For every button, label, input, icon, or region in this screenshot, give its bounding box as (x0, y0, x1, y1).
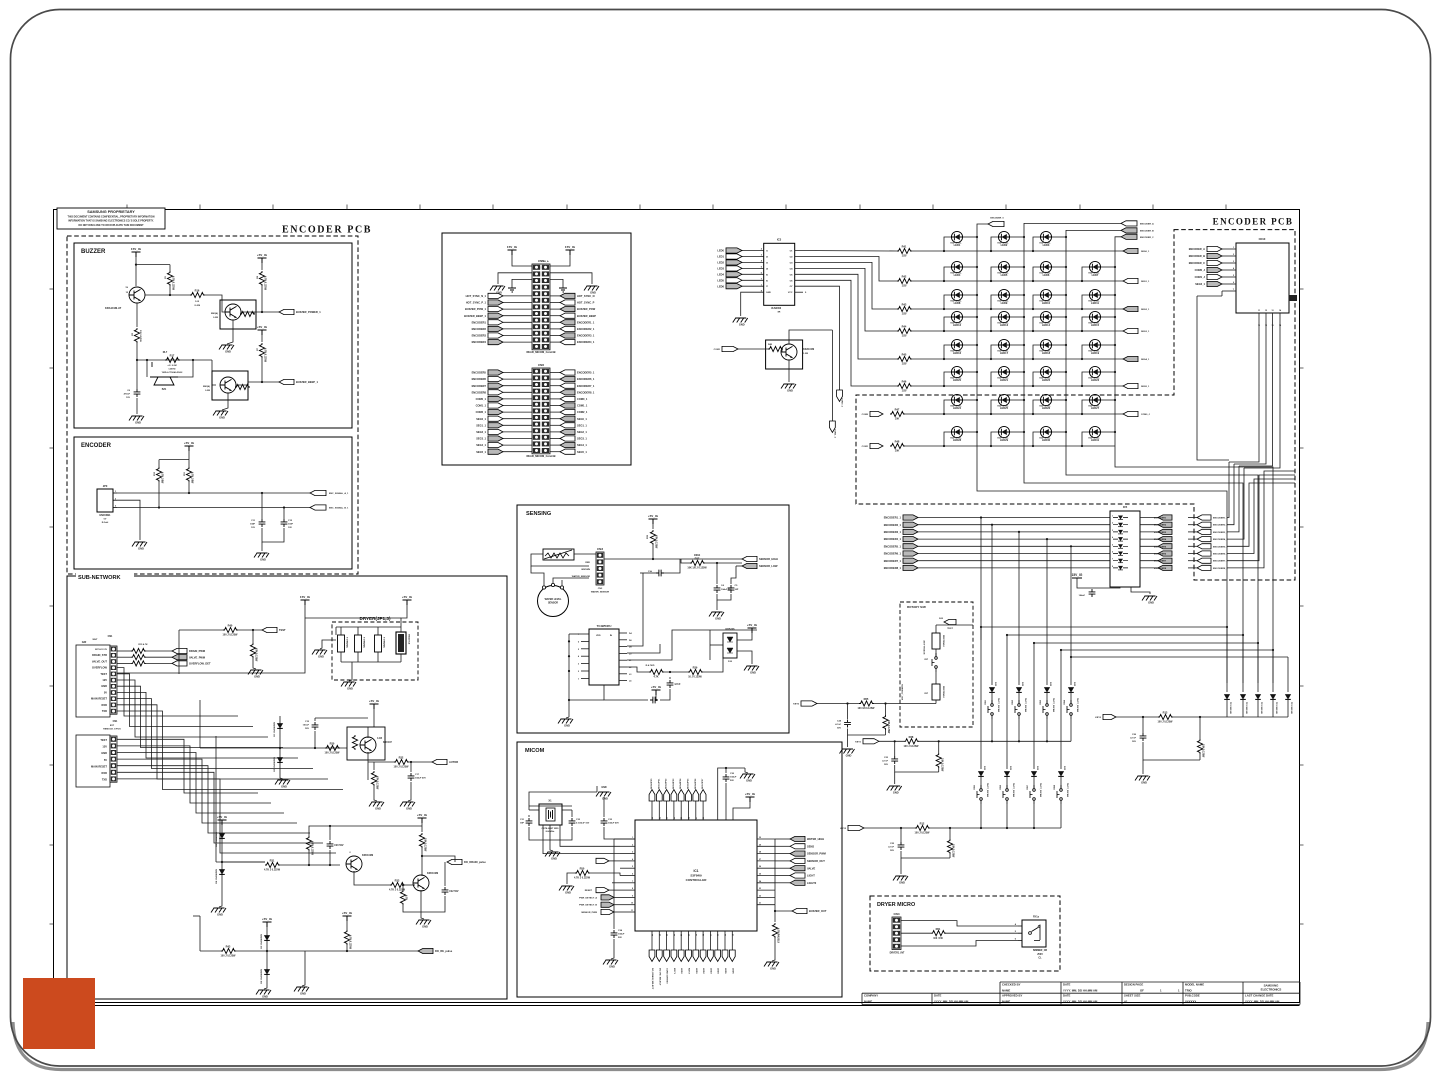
svg-text:GND: GND (101, 751, 107, 755)
svg-text:VALVE_OUT: VALVE_OUT (92, 659, 108, 663)
svg-text:GND: GND (225, 350, 231, 354)
block MICOM box (517, 742, 842, 997)
wire Q1 emitter (136, 303, 138, 327)
net flag PWR_DETECT_B (601, 902, 614, 907)
pin label SEG0/P30 (651, 778, 653, 789)
wire (340, 652, 342, 662)
wire (991, 693, 993, 703)
wire key col low 3 (1033, 643, 1035, 769)
svg-text:19: 19 (696, 934, 698, 936)
junction (1018, 740, 1020, 742)
resistor R12 (915, 822, 931, 835)
resistor R28 (649, 669, 664, 678)
LED LED1 (951, 231, 963, 247)
svg-text:100 J 0.125W: 100 J 0.125W (904, 745, 920, 748)
svg-text:COM0_1: COM0_1 (577, 397, 588, 401)
wire CN6 left pin (503, 418, 532, 420)
wire key row 3 (918, 531, 1110, 533)
wire (614, 838, 620, 840)
wire CN5 left pin (503, 302, 532, 304)
junction (976, 316, 978, 318)
wire (663, 671, 688, 673)
wire (627, 644, 660, 653)
svg-text:COM1_1: COM1_1 (476, 404, 487, 408)
wire (261, 493, 263, 519)
svg-text:SEG3/P33: SEG3/P33 (673, 778, 675, 789)
resonator X1 body (539, 799, 562, 834)
net flag VALVE (790, 866, 816, 871)
wire Q4 emitter (367, 752, 369, 780)
svg-text:SENSING: SENSING (526, 511, 551, 517)
junction (976, 266, 978, 268)
ground (248, 670, 263, 679)
svg-text:KAP-5CEL: KAP-5CEL (1040, 350, 1052, 353)
net flag DO_DRAIN_SELECT (649, 950, 655, 962)
wire CN6 right pin (550, 398, 560, 400)
wire IC5 out 8 (1140, 567, 1158, 569)
wire (550, 840, 553, 851)
wire (222, 861, 265, 863)
wire IC3 out 3 to LED row 3 (795, 262, 897, 309)
svg-text:KAP-5CEL: KAP-5CEL (1089, 322, 1101, 325)
pin label DRAIN_STR (92, 653, 107, 657)
junction (976, 236, 978, 238)
wire stage B input (216, 861, 265, 863)
thermistor TH1 (543, 549, 574, 560)
wire CN6 right pin (550, 391, 560, 393)
wire CN5 left pin (503, 295, 532, 297)
svg-text:ROTARY S/W: ROTARY S/W (907, 605, 926, 609)
net flag HOT_SYNC_P (560, 300, 595, 305)
svg-text:ENCODER_B: ENCODER_B (1140, 230, 1154, 232)
junction (725, 767, 727, 769)
resistor RSW1 body (932, 633, 945, 649)
wire (736, 565, 742, 567)
wire (349, 662, 352, 681)
pin label LED0 (680, 968, 682, 974)
svg-text:KAP-5CEL: KAP-5CEL (998, 437, 1010, 440)
wire (627, 667, 649, 672)
wire CN1 pin 3 fan (117, 668, 238, 716)
connector CN10 right pin (1289, 295, 1297, 301)
net flag PWR_DETECT_A (601, 895, 614, 900)
wire CN6 left pin (503, 438, 532, 440)
svg-text:BZ1: BZ1 (162, 388, 167, 391)
svg-text:16: 16 (718, 934, 720, 936)
svg-text:TLV-WM 4D: TLV-WM 4D (1245, 702, 1248, 714)
svg-text:HOT_SYNC_P: HOT_SYNC_P (577, 301, 595, 305)
ground (254, 553, 269, 562)
block ROTARY S/W dashed box (900, 602, 973, 727)
svg-text:R15 4.7K: R15 4.7K (138, 643, 148, 646)
svg-text:KRC102M: KRC102M (362, 854, 373, 857)
wire LED7 cathode (1101, 266, 1115, 268)
net flag SENSOR_LOW (742, 563, 778, 568)
resistor R10 (156, 467, 163, 484)
wire LED10 cathode (1052, 294, 1066, 296)
wire (566, 717, 569, 718)
svg-text:TACT_SW AB: TACT_SW AB (1076, 698, 1079, 713)
LED LED4 (951, 261, 963, 277)
junction (1114, 294, 1116, 296)
wire IC3 out 1 to LED row 1 (795, 250, 897, 253)
svg-text:YYYY. MM. DD HH:MM AM: YYYY. MM. DD HH:MM AM (1063, 989, 1098, 993)
wire key column 1 drop (980, 518, 982, 641)
right section dashed outline (856, 230, 1295, 580)
svg-text:10: 10 (631, 903, 633, 905)
net flag HOT_SYNC_N_1 (466, 293, 503, 298)
pin label LED2 (702, 968, 704, 974)
LED LED25 (998, 394, 1010, 410)
svg-text:15V_IG: 15V_IG (507, 245, 518, 249)
wire LED23 cathode (1101, 371, 1115, 373)
wire 5V to micom (733, 802, 750, 820)
net flag SEG4_1 (476, 443, 503, 448)
wire (1143, 742, 1200, 760)
wire (237, 629, 262, 631)
capacitor C3 (656, 570, 664, 577)
wire (745, 768, 748, 773)
wire (640, 572, 656, 574)
wire (151, 362, 153, 367)
svg-text:TEST: TEST (279, 628, 286, 632)
wire CN2 pin 4 fan (117, 759, 297, 823)
svg-text:S3F84I9: S3F84I9 (690, 874, 702, 878)
svg-text:SCROLL-ENC: SCROLL-ENC (924, 640, 926, 655)
svg-text:10K 0.125W: 10K 0.125W (424, 838, 427, 852)
svg-text:ENCODER6_J: ENCODER6_J (1213, 554, 1228, 556)
wire (569, 699, 604, 701)
svg-text:R50: R50 (580, 867, 585, 871)
svg-text:COM2_1: COM2_1 (476, 410, 487, 414)
net flag SENSOR_OUT (790, 858, 825, 863)
svg-text:4.7K J 0.125W: 4.7K J 0.125W (574, 877, 591, 880)
diode D31 (1004, 771, 1010, 776)
wire (817, 703, 859, 705)
wire IC5 out 7 (1140, 560, 1158, 562)
wire (1070, 719, 1072, 741)
connector CN3 (596, 547, 604, 585)
ground (781, 384, 796, 393)
LED LED14 (1040, 311, 1052, 327)
svg-text:50V: 50V (730, 780, 734, 782)
power +5V_IG (402, 595, 413, 605)
wire micom right pin 1 (757, 845, 775, 847)
net flag SEG5_1 (476, 449, 503, 454)
junction (568, 640, 570, 642)
wire key col 4 (1070, 640, 1072, 685)
wire CN5 right pin (550, 341, 560, 343)
net flag (944, 619, 956, 624)
wire LED12 anode (944, 317, 951, 331)
wire LED9 cathode (1010, 294, 1024, 296)
wire (900, 828, 902, 842)
power +5V_IG (262, 917, 273, 927)
wire (1188, 524, 1197, 526)
svg-text:SEG0_1: SEG0_1 (476, 417, 486, 421)
svg-text:ELECTRONICS: ELECTRONICS (1261, 988, 1282, 992)
wire LED15 cathode (1101, 316, 1115, 318)
wire (314, 731, 316, 748)
resistor R34 (419, 833, 426, 852)
svg-text:5: 5 (1233, 275, 1234, 277)
resistor R47 (890, 408, 905, 421)
wire (188, 460, 190, 467)
net flag COM0_DRIVE0 (664, 950, 670, 962)
resistor R50 (574, 867, 591, 880)
resistor R61 (931, 927, 946, 940)
svg-text:SW3: SW3 (1040, 699, 1042, 705)
net flag SEG3_1 (476, 436, 503, 441)
svg-text:OVERFLOW_DET: OVERFLOW_DET (189, 662, 211, 666)
junction (1032, 445, 1034, 447)
wire (935, 649, 937, 656)
wire CN6 left pin (503, 391, 532, 393)
resistor R45 (897, 353, 912, 366)
wire micom right pin 8 (757, 896, 775, 898)
svg-text:IC1: IC1 (694, 869, 699, 873)
diode D20 (989, 687, 995, 692)
svg-text:100 0.125W: 100 0.125W (139, 330, 141, 343)
ground (893, 876, 908, 885)
junction (1023, 371, 1025, 373)
svg-text:PWR_DETECT_A: PWR_DETECT_A (579, 896, 597, 899)
ground (211, 908, 226, 917)
wire (614, 904, 620, 906)
wire LED1 cathode (963, 236, 977, 238)
svg-text:15V_IG: 15V_IG (300, 595, 311, 599)
svg-text:REST0N4.6: REST0N4.6 (942, 686, 945, 698)
junction (1033, 642, 1035, 644)
svg-text:GND: GND (217, 913, 223, 917)
junction (1032, 413, 1034, 415)
svg-text:LED4: LED4 (717, 272, 724, 276)
wire IC3 out 2 to LED row 2 (795, 257, 897, 282)
wire (938, 741, 940, 753)
net flag ENCODER2_1 (560, 326, 595, 331)
wire (221, 825, 223, 900)
junction (1023, 294, 1025, 296)
LED LED9 (998, 289, 1010, 305)
net flag DRAIN_PWM (172, 648, 205, 653)
wire (980, 777, 982, 788)
svg-text:SEG2_1: SEG2_1 (1141, 309, 1150, 311)
junction (990, 413, 992, 415)
svg-text:ENCODER1: ENCODER1 (1154, 518, 1167, 520)
svg-text:KAP-5CEL: KAP-5CEL (998, 272, 1010, 275)
wire LED5 cathode (1010, 266, 1024, 268)
wire R11 to A (188, 481, 190, 493)
svg-text:D4 1N4148WS: D4 1N4148WS (215, 868, 218, 883)
wire LED5 anode (991, 267, 998, 281)
net flag SEG5_1 (1123, 383, 1138, 388)
svg-text:0.2M: 0.2M (205, 390, 210, 392)
power +5V_IG (369, 699, 380, 709)
svg-text:ENCODER2_1: ENCODER2_1 (884, 523, 902, 527)
wire key row 5 (918, 545, 1110, 547)
svg-text:10V: 10V (126, 397, 130, 399)
net flag SEG5_1 (560, 449, 587, 454)
svg-text:10 J 0.125W: 10 J 0.125W (688, 676, 702, 679)
svg-text:21: 21 (681, 934, 683, 936)
svg-text:YMD-LCT6040-55G2: YMD-LCT6040-55G2 (162, 371, 184, 374)
svg-text:KAP-5CEL: KAP-5CEL (951, 322, 963, 325)
wire IC pin right (619, 639, 627, 641)
svg-text:SENSOR_HIGH: SENSOR_HIGH (759, 557, 778, 561)
wire micom top pin 5 (688, 801, 690, 820)
wire CN1 pin 10 fan (117, 711, 343, 790)
junction (283, 506, 285, 508)
net flag LED2 (700, 950, 706, 962)
connector CN2 pins (110, 736, 117, 782)
IC1 micom body (635, 820, 757, 931)
svg-text:GND: GND (135, 421, 141, 425)
wire (266, 927, 268, 985)
wire (731, 566, 736, 584)
junction (1032, 250, 1034, 252)
wire micom left pin 0 (620, 838, 635, 840)
wire (612, 882, 620, 884)
junction (980, 516, 982, 518)
junction (652, 558, 654, 560)
net flag (1158, 529, 1172, 534)
orange corner square (23, 978, 95, 1049)
wire (169, 285, 171, 295)
wire CN6 right pin (550, 451, 560, 453)
wire (253, 312, 255, 314)
wire micom bottom pin 8 (709, 931, 711, 950)
wire col1 top (977, 224, 988, 237)
net flag LED3 (717, 266, 742, 271)
junction (990, 358, 992, 360)
transistor stage box Q2 (220, 300, 256, 329)
wire LED16 anode (944, 345, 951, 359)
svg-text:GND: GND (893, 791, 899, 795)
wire (589, 873, 620, 876)
svg-text:GND: GND (262, 995, 268, 999)
svg-text:GND: GND (1141, 781, 1147, 785)
resistor R43 (897, 303, 912, 316)
svg-text:DESIGN PAGE: DESIGN PAGE (1124, 983, 1143, 987)
svg-text:ENCODER_C: ENCODER_C (1189, 261, 1205, 265)
net flag COM1_1in (870, 443, 883, 448)
wire dryer 3 (901, 941, 1018, 947)
pin label KEY2 (688, 968, 690, 974)
power +5V_IG (745, 792, 756, 802)
wire 15V right (550, 255, 570, 266)
svg-text:GND: GND (300, 992, 306, 996)
net flag LED5 (722, 950, 728, 962)
wire (199, 916, 201, 951)
wire IC pin right (619, 652, 627, 654)
svg-text:KAP-5CEL: KAP-5CEL (951, 272, 963, 275)
wire 15V rail (117, 605, 305, 673)
svg-text:23: 23 (667, 934, 669, 936)
resistor R43 (221, 945, 237, 958)
svg-text:KAP-5CEL: KAP-5CEL (951, 377, 963, 380)
wire (314, 718, 316, 721)
svg-text:104uF: 104uF (618, 933, 625, 936)
svg-text:CN3: CN3 (598, 588, 603, 590)
svg-text:ENCODER2_J: ENCODER2_J (1213, 525, 1228, 527)
wire (1197, 295, 1222, 297)
wire micom left pin 4 (620, 867, 635, 869)
wire micom bottom pin 10 (724, 931, 726, 950)
wire (603, 797, 605, 817)
svg-text:COM0: COM0 (862, 414, 869, 416)
wire key row 4 (918, 538, 1110, 540)
wire (775, 875, 790, 877)
net flag LIGHT (790, 873, 815, 878)
wire CN6 left pin (503, 378, 532, 380)
wire (1199, 717, 1201, 739)
net flag SEG2_1 (476, 429, 503, 434)
resistor R7 (259, 343, 266, 363)
wire (1018, 693, 1020, 703)
svg-text:10P: 10P (735, 589, 739, 591)
svg-text:10K 1/8 J 0.125W: 10K 1/8 J 0.125W (687, 567, 707, 570)
svg-text:WATER_SENSOR: WATER_SENSOR (591, 590, 610, 593)
net flag ENCODER_A (1189, 246, 1222, 251)
wire (374, 785, 377, 801)
capacitor C6 (134, 389, 141, 397)
wire (199, 700, 201, 748)
svg-text:KAP-5CEL: KAP-5CEL (1089, 272, 1101, 275)
svg-text:HOT_SYNC_P_1: HOT_SYNC_P_1 (466, 301, 487, 305)
wire CN6 right pin (550, 438, 560, 440)
power +5V_IG (651, 685, 662, 695)
svg-text:KAP-5CEL: KAP-5CEL (1040, 242, 1052, 245)
resistor R40 (223, 624, 239, 637)
svg-text:1/20: 1/20 (902, 255, 907, 258)
pin label KEY2 (1154, 525, 1167, 527)
svg-text:10K 0.125W: 10K 0.125W (940, 758, 943, 772)
power +5V_IG (417, 813, 428, 823)
svg-text:ENCODER7: ENCODER7 (1154, 561, 1167, 563)
net flag ENCODER4_1 (884, 537, 918, 542)
wire micom right pin 2 (757, 853, 775, 855)
svg-text:10V: 10V (288, 527, 292, 529)
svg-text:GND: GND (422, 925, 428, 929)
wire LED30 anode (1033, 432, 1040, 446)
svg-text:5: 5 (1112, 544, 1113, 546)
capacitor C30 (723, 774, 730, 782)
wire CN10 pin 4 (1222, 269, 1236, 271)
diode D6 (264, 969, 270, 974)
svg-text:R31: R31 (270, 859, 275, 863)
net flag ENCODER3 (472, 333, 503, 338)
svg-text:JP0: JP0 (103, 484, 108, 488)
svg-text:BUZZER_POW: BUZZER_POW (577, 307, 596, 311)
svg-text:38: 38 (689, 817, 691, 819)
svg-text:11: 11 (631, 910, 633, 912)
svg-text:47K 0.125W: 47K 0.125W (376, 776, 379, 790)
pin label DO_DRAIN_SELECT (651, 968, 654, 990)
svg-text:26: 26 (759, 866, 761, 868)
svg-text:ENCODER5_1: ENCODER5_1 (577, 371, 595, 375)
resistor R20 (325, 742, 341, 755)
wire (335, 627, 337, 635)
wire IC3 out 5 to LED row 5 (795, 274, 897, 359)
svg-text:R41: R41 (902, 245, 907, 249)
svg-text:5V: 5V (104, 758, 107, 762)
net flag BUZZER_POW_1 (465, 307, 503, 312)
svg-text:SEG4_1: SEG4_1 (1141, 358, 1150, 361)
wire encoder B (117, 507, 310, 509)
svg-text:ENCODER8_1: ENCODER8_1 (884, 566, 902, 570)
svg-text:0.2M: 0.2M (213, 317, 218, 319)
power +5V_IG (217, 815, 228, 825)
